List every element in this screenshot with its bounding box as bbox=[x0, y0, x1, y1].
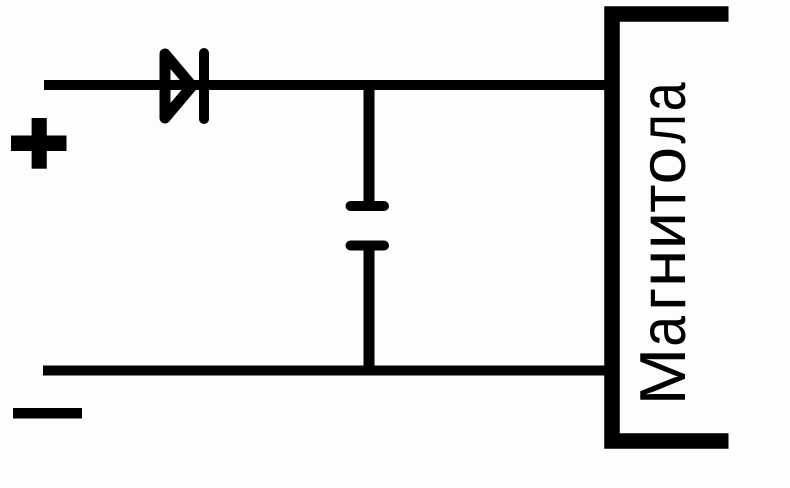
svg-text:о: о bbox=[627, 147, 699, 185]
svg-text:а: а bbox=[628, 82, 700, 111]
svg-text:т: т bbox=[627, 185, 699, 213]
minus terminal bbox=[13, 408, 82, 419]
svg-text:М: М bbox=[627, 348, 699, 406]
diode VD1 (series in top rail) bbox=[165, 53, 204, 119]
capacitor C1 bbox=[351, 206, 385, 246]
wire: capacitor branch upper segment (from junction with top rail) bbox=[364, 85, 375, 204]
wire: bottom rail from - input to load bbox=[43, 366, 612, 376]
plus terminal bbox=[11, 118, 67, 169]
load bracket: Магнитола connector bbox=[612, 14, 729, 441]
wire: top rail from + input to load bbox=[44, 80, 612, 90]
svg-text:л: л bbox=[627, 114, 700, 143]
svg-text:г: г bbox=[626, 288, 699, 311]
svg-text:а: а bbox=[626, 316, 699, 347]
label: Магнитола (per-letter, reading bottom-to-top) bbox=[626, 82, 700, 405]
svg-text:и: и bbox=[626, 212, 699, 249]
svg-text:н: н bbox=[627, 250, 700, 287]
wire: capacitor branch lower segment bbox=[364, 248, 375, 373]
